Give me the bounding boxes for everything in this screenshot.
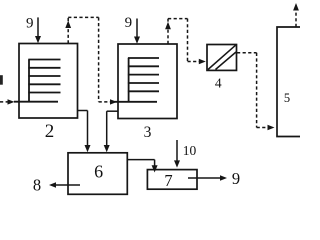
svg-text:9: 9 xyxy=(125,15,133,31)
arrowhead of feed 1 xyxy=(8,99,15,104)
box 7 xyxy=(147,170,197,190)
right arrowhead of output 9 xyxy=(220,175,227,180)
svg-text:7: 7 xyxy=(164,171,172,190)
label 1 (feed, clipped at edge) xyxy=(0,75,3,85)
membrane diagonal 2 xyxy=(216,52,237,70)
up arrowhead on box2 vent xyxy=(65,21,71,29)
arrow 9 into box 2 xyxy=(37,17,39,37)
box 2 (vessel with tray stack) xyxy=(19,44,78,119)
wire output 9 from box 7 xyxy=(188,177,221,179)
svg-text:9: 9 xyxy=(26,15,34,31)
right arrowhead into box 4 xyxy=(199,59,206,64)
wire box 3 to box 6 xyxy=(107,111,118,146)
box 3 (vessel with tray stack) xyxy=(118,44,177,119)
wire box 2 to box 6 xyxy=(78,111,88,147)
vent wire from box 5 top (dashed) xyxy=(295,9,297,27)
tray stack of box 2 xyxy=(14,60,61,102)
box 5 (right column, clipped by edge) xyxy=(277,27,300,137)
svg-text:10: 10 xyxy=(183,143,197,158)
svg-text:4: 4 xyxy=(215,76,222,91)
svg-text:9: 9 xyxy=(232,169,240,188)
arrow 9 into box 3 xyxy=(136,19,138,39)
tray stack of box 3 xyxy=(115,58,160,102)
down arrowhead into box 6 (from 3) xyxy=(104,145,110,152)
wire output 8 from box 6 xyxy=(55,184,80,186)
svg-text:5: 5 xyxy=(284,91,290,105)
input 1 dashed feed line xyxy=(0,101,9,103)
up arrowhead on box5 vent xyxy=(293,3,299,11)
vent wire from box 2 to box 3 (dashed) xyxy=(68,17,110,102)
svg-text:6: 6 xyxy=(94,162,103,182)
up arrowhead on box3 vent xyxy=(165,22,171,30)
box 6 xyxy=(68,153,127,195)
membrane diagonal 1 xyxy=(208,45,236,69)
svg-text:8: 8 xyxy=(33,175,41,194)
right arrowhead into box 3 xyxy=(110,99,117,104)
down arrowhead into box 7 xyxy=(152,165,158,172)
vent wire from box 3 to box 4 (dashed) xyxy=(168,19,199,62)
down arrowhead into box 6 (from 2) xyxy=(85,145,91,152)
arrow 10 into box 7 xyxy=(176,140,178,162)
box 4 (membrane unit) xyxy=(207,45,237,71)
wire box 6 to box 7 xyxy=(127,160,154,166)
svg-text:2: 2 xyxy=(45,121,55,142)
svg-text:3: 3 xyxy=(144,124,152,141)
right arrowhead into box 5 xyxy=(268,125,275,130)
left arrowhead of 8 xyxy=(49,182,56,187)
wire box 4 to box 5 (dashed) xyxy=(237,53,268,128)
